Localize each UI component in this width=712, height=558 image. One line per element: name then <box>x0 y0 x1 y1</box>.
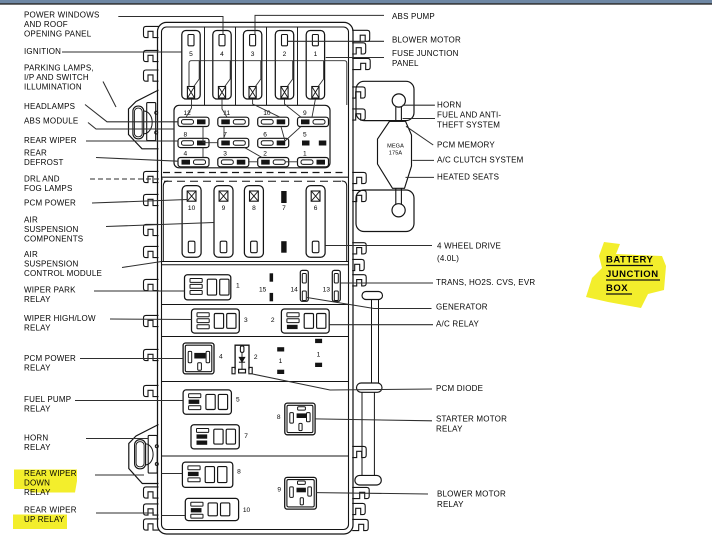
mini fuse 1 <box>298 151 329 167</box>
label BLOWER MOTOR <box>392 36 461 45</box>
section divider line <box>162 261 349 263</box>
right housing upper lobe <box>356 81 414 120</box>
maxi fuse 10 <box>182 186 201 258</box>
svg-text:HEADLAMPS: HEADLAMPS <box>24 102 75 111</box>
label AIR <box>24 216 38 225</box>
label OPENING PANEL <box>24 30 92 39</box>
svg-text:POWER WINDOWS: POWER WINDOWS <box>24 11 99 20</box>
svg-text:AIR: AIR <box>24 250 38 259</box>
label BATTERY <box>606 255 653 266</box>
svg-text:DEFROST: DEFROST <box>24 158 64 167</box>
svg-text:PCM MEMORY: PCM MEMORY <box>437 141 495 150</box>
svg-text:8: 8 <box>277 414 281 421</box>
label 4 WHEEL DRIVE <box>437 242 501 251</box>
label RELAY <box>24 324 51 333</box>
svg-text:REAR WIPER: REAR WIPER <box>24 136 77 145</box>
svg-text:THEFT SYSTEM: THEFT SYSTEM <box>437 121 500 130</box>
housing tab right <box>352 259 364 270</box>
svg-text:RELAY: RELAY <box>436 425 463 434</box>
mega fuse 175A <box>378 94 412 217</box>
housing tab right <box>352 503 365 514</box>
section divider line <box>162 304 349 306</box>
label RELAY <box>24 405 51 414</box>
mini fuse 7 <box>218 131 249 147</box>
wire lead starter motor relay <box>315 419 432 421</box>
wire lead trans ho2s <box>340 282 433 284</box>
junction box inner shell <box>162 27 349 530</box>
mini fuse 3 <box>218 151 249 167</box>
housing tab right <box>352 446 366 457</box>
label HEATED SEATS <box>437 173 499 182</box>
label ILLUMINATION <box>24 83 82 92</box>
svg-text:5: 5 <box>303 131 307 138</box>
mini fuse 4 <box>178 151 209 167</box>
svg-text:175A: 175A <box>389 151 403 157</box>
label REAR <box>24 149 47 158</box>
wire power windows drop <box>118 17 223 35</box>
svg-text:SUSPENSION: SUSPENSION <box>24 225 78 234</box>
wire lead horn relay <box>86 438 148 440</box>
svg-text:FUEL AND ANTI-: FUEL AND ANTI- <box>437 111 501 120</box>
relay R3 wiper high/low <box>192 309 249 333</box>
relay R4 pcm power <box>183 343 223 374</box>
svg-text:3: 3 <box>251 51 255 58</box>
wire mini fuse links <box>186 99 192 117</box>
svg-text:3: 3 <box>244 317 248 324</box>
svg-text:FOG LAMPS: FOG LAMPS <box>24 184 72 193</box>
svg-text:RELAY: RELAY <box>24 443 51 452</box>
label RELAY <box>24 364 51 373</box>
housing tab left <box>144 246 159 257</box>
svg-text:COMPONENTS: COMPONENTS <box>24 235 83 244</box>
svg-text:1: 1 <box>303 151 307 158</box>
housing tab right <box>352 487 369 498</box>
svg-text:WIPER HIGH/LOW: WIPER HIGH/LOW <box>24 314 96 323</box>
svg-text:(4.0L): (4.0L) <box>437 254 459 263</box>
svg-text:1: 1 <box>279 358 283 365</box>
svg-text:RELAY: RELAY <box>24 364 51 373</box>
svg-text:REAR WIPER: REAR WIPER <box>24 469 77 478</box>
wire lead rear defrost <box>96 158 178 162</box>
maxi fuse 6 <box>306 186 325 258</box>
wire lead 4 wheel drive <box>325 245 432 247</box>
housing tab right <box>352 275 366 286</box>
maxi fuse slot 1 <box>306 31 324 100</box>
wire lead drl fog lamps <box>90 178 163 180</box>
label HORN <box>437 101 461 110</box>
svg-text:RELAY: RELAY <box>24 295 51 304</box>
label IGNITION <box>24 47 61 56</box>
label PCM DIODE <box>436 384 483 393</box>
wire lead headlamps <box>85 105 178 122</box>
label SUSPENSION <box>24 225 78 234</box>
housing tab left <box>144 315 159 326</box>
maxi fuse 9 <box>214 186 233 258</box>
svg-text:6: 6 <box>314 205 318 212</box>
label CONTROL MODULE <box>24 269 102 278</box>
label RELAY <box>24 488 51 497</box>
mini fuse carrier <box>174 105 330 168</box>
label JUNCTION <box>606 269 660 280</box>
junction box outer shell <box>158 22 354 534</box>
wire lead ac relay <box>329 324 433 326</box>
label ABS PUMP <box>392 12 435 21</box>
svg-text:WIPER PARK: WIPER PARK <box>24 286 76 295</box>
wire lead parking lamps diagonal <box>103 82 116 108</box>
housing tab left <box>144 279 159 290</box>
wire lead rear wiper down a <box>95 474 144 476</box>
svg-text:9: 9 <box>303 110 307 117</box>
wire lead fuel pump relay <box>75 400 183 402</box>
svg-text:HEATED SEATS: HEATED SEATS <box>437 173 499 182</box>
housing tab right <box>352 190 366 201</box>
svg-text:8: 8 <box>237 469 241 476</box>
svg-text:10: 10 <box>188 205 196 212</box>
wire lead blower motor relay <box>316 493 428 494</box>
housing tab right <box>352 519 368 530</box>
svg-text:7: 7 <box>244 433 248 440</box>
svg-text:UP RELAY: UP RELAY <box>24 515 65 524</box>
svg-text:STARTER MOTOR: STARTER MOTOR <box>436 415 507 424</box>
section divider line <box>162 176 349 178</box>
fuse 13 <box>323 270 341 301</box>
label REAR WIPER <box>24 469 77 478</box>
svg-text:GENERATOR: GENERATOR <box>436 303 488 312</box>
svg-text:1: 1 <box>314 51 318 58</box>
svg-text:4: 4 <box>220 51 224 58</box>
svg-text:PCM POWER: PCM POWER <box>24 354 76 363</box>
mid section tray <box>163 181 346 262</box>
label RELAY <box>24 443 51 452</box>
svg-text:AND ROOF: AND ROOF <box>24 20 68 29</box>
label SUSPENSION <box>24 260 78 269</box>
label RELAY <box>437 500 464 509</box>
label WIPER PARK <box>24 286 76 295</box>
label COMPONENTS <box>24 235 83 244</box>
fuse 14 <box>290 270 308 301</box>
wire lead wiper highlow relay <box>110 318 192 321</box>
highlight rear wiper down <box>14 470 77 493</box>
highlight battery junction box <box>586 242 666 308</box>
svg-text:8: 8 <box>184 131 188 138</box>
svg-text:ILLUMINATION: ILLUMINATION <box>24 83 82 92</box>
svg-text:3: 3 <box>223 151 227 158</box>
label WIPER HIGH/LOW <box>24 314 96 323</box>
label UP RELAY <box>24 515 65 524</box>
label TRANS, HO2S. CVS, EVR <box>436 278 535 287</box>
maxi fuse 8 <box>244 186 263 258</box>
housing tab left <box>144 487 159 498</box>
label BLOWER MOTOR <box>437 490 506 499</box>
wire lead pcm power relay <box>80 358 183 360</box>
svg-text:PANEL: PANEL <box>392 59 419 68</box>
wire lead rear wiper up a <box>96 512 154 514</box>
svg-text:RELAY: RELAY <box>437 500 464 509</box>
svg-text:RELAY: RELAY <box>24 405 51 414</box>
label I/P AND SWITCH <box>24 73 89 82</box>
label PCM POWER <box>24 199 76 208</box>
terminal pair 1a <box>277 347 284 374</box>
svg-text:HORN: HORN <box>24 434 48 443</box>
svg-text:4: 4 <box>219 354 223 361</box>
label FOG LAMPS <box>24 184 72 193</box>
wire lead pcm memory diagonal <box>406 126 433 145</box>
wire lead horn <box>403 104 435 106</box>
mini fuse 11 <box>218 110 249 127</box>
label A/C CLUTCH SYSTEM <box>437 156 524 165</box>
svg-text:HORN: HORN <box>437 101 461 110</box>
wire abs pump drop <box>255 15 384 34</box>
svg-text:4 WHEEL DRIVE: 4 WHEEL DRIVE <box>437 242 501 251</box>
housing tab left <box>144 224 159 235</box>
wire lead pcm diode <box>253 374 433 390</box>
connector C1 body <box>129 90 159 149</box>
fuse 15 terminals <box>259 273 273 301</box>
svg-text:OPENING PANEL: OPENING PANEL <box>24 30 92 39</box>
svg-text:AIR: AIR <box>24 216 38 225</box>
wire lead fuel anti-theft <box>403 118 435 120</box>
label REAR WIPER <box>24 506 77 515</box>
label RELAY <box>24 295 51 304</box>
label PANEL <box>392 59 419 68</box>
housing tab left <box>144 504 159 515</box>
wire lead air susp components <box>106 223 214 227</box>
maxi fuse slot 3 <box>243 31 261 100</box>
relay R8 rear wiper down <box>182 462 241 487</box>
svg-text:FUSE JUNCTION: FUSE JUNCTION <box>392 49 459 58</box>
mini fuse 8 <box>178 131 209 147</box>
relay R2 a/c <box>271 309 329 333</box>
svg-text:FUEL PUMP: FUEL PUMP <box>24 395 71 404</box>
relay R9 blower motor <box>277 477 316 509</box>
svg-text:PCM POWER: PCM POWER <box>24 199 76 208</box>
svg-text:9: 9 <box>222 205 226 212</box>
svg-text:ABS MODULE: ABS MODULE <box>24 117 78 126</box>
svg-text:CONTROL MODULE: CONTROL MODULE <box>24 269 102 278</box>
label BOX <box>606 283 632 294</box>
svg-text:DOWN: DOWN <box>24 479 50 488</box>
maxi fuse slot 2 <box>275 31 293 100</box>
label HEADLAMPS <box>24 102 75 111</box>
svg-text:15: 15 <box>259 286 267 293</box>
top toolbar strip <box>0 0 712 5</box>
mini fuse 9 <box>298 110 329 127</box>
wire lead generator <box>307 298 432 309</box>
housing tab right <box>352 87 365 98</box>
empty maxi position 7 terminals <box>281 191 286 253</box>
svg-text:RELAY: RELAY <box>24 488 51 497</box>
mini fuse 12 <box>178 110 209 127</box>
label AND ROOF <box>24 20 68 29</box>
svg-text:7: 7 <box>282 205 286 212</box>
svg-text:9: 9 <box>277 487 281 494</box>
svg-text:1: 1 <box>317 351 321 358</box>
svg-text:REAR WIPER: REAR WIPER <box>24 506 77 515</box>
section divider line <box>162 336 349 338</box>
wire lead rear wiper <box>86 140 178 142</box>
relay R5 fuel pump <box>183 390 240 414</box>
relay R1 wiper park <box>185 275 241 300</box>
svg-text:13: 13 <box>323 286 331 293</box>
mini fuse 2 <box>258 151 289 167</box>
relay R10 rear wiper up <box>185 498 250 520</box>
wire blower motor lead <box>287 40 384 42</box>
label PCM MEMORY <box>437 141 495 150</box>
svg-text:SUSPENSION: SUSPENSION <box>24 260 78 269</box>
wire lead wiper park relay <box>94 290 185 292</box>
label DOWN <box>24 479 50 488</box>
svg-text:ABS PUMP: ABS PUMP <box>392 12 435 21</box>
svg-text:2: 2 <box>263 151 267 158</box>
svg-text:5: 5 <box>189 51 193 58</box>
bus bar strip right <box>355 292 383 486</box>
connector C2 body <box>129 425 159 484</box>
wire lead heated seats <box>406 176 435 178</box>
svg-text:2: 2 <box>283 51 287 58</box>
housing tab left <box>144 50 159 61</box>
wire lead air susp control <box>122 262 162 268</box>
svg-text:DRL AND: DRL AND <box>24 175 60 184</box>
housing tab left <box>144 349 159 360</box>
svg-text:PCM DIODE: PCM DIODE <box>436 384 483 393</box>
wire lead ac clutch <box>412 159 434 161</box>
maxi fuse slot 4 <box>213 31 231 100</box>
svg-text:4: 4 <box>184 151 188 158</box>
housing tab left <box>144 26 159 37</box>
svg-text:I/P AND SWITCH: I/P AND SWITCH <box>24 73 89 82</box>
label HORN <box>24 434 48 443</box>
section divider line <box>162 455 349 457</box>
wire lead ignition <box>62 51 182 53</box>
label AIR <box>24 250 38 259</box>
relay R7 horn <box>191 425 248 449</box>
svg-text:PARKING LAMPS,: PARKING LAMPS, <box>24 64 94 73</box>
relay R6 starter motor <box>277 403 315 435</box>
svg-text:A/C RELAY: A/C RELAY <box>436 320 479 329</box>
label DEFROST <box>24 158 64 167</box>
housing tab left <box>144 385 159 396</box>
section divider line <box>162 264 349 266</box>
svg-text:5: 5 <box>236 397 240 404</box>
label RELAY <box>436 425 463 434</box>
svg-text:8: 8 <box>252 205 256 212</box>
svg-text:BOX: BOX <box>606 283 628 294</box>
wire bus across maxi fuses <box>189 61 347 105</box>
label A/C RELAY <box>436 320 479 329</box>
housing tab left <box>144 519 159 530</box>
label PARKING LAMPS, <box>24 64 94 73</box>
wire lead pcm power fuse <box>92 200 187 204</box>
svg-text:TRANS, HO2S. CVS, EVR: TRANS, HO2S. CVS, EVR <box>436 278 535 287</box>
svg-text:A/C CLUTCH SYSTEM: A/C CLUTCH SYSTEM <box>437 156 524 165</box>
maxi fuse slot 5 <box>182 31 200 100</box>
label POWER WINDOWS <box>24 11 99 20</box>
tray divider wires top section <box>204 28 206 106</box>
label GENERATOR <box>436 303 488 312</box>
housing tab right <box>352 30 370 41</box>
label FUEL AND ANTI- <box>437 111 501 120</box>
svg-text:14: 14 <box>290 286 298 293</box>
housing tab right <box>352 58 370 69</box>
dashed carrier seam <box>163 172 347 174</box>
svg-text:1: 1 <box>236 283 240 290</box>
housing tab left <box>144 194 159 205</box>
wire maxi fuse feeds <box>194 61 199 87</box>
label THEFT SYSTEM <box>437 121 500 130</box>
label PCM POWER <box>24 354 76 363</box>
svg-text:2: 2 <box>271 317 275 324</box>
wire lead rear wiper up b <box>162 515 186 517</box>
housing tab left <box>144 70 159 81</box>
svg-text:JUNCTION: JUNCTION <box>606 269 659 280</box>
svg-text:RELAY: RELAY <box>24 324 51 333</box>
housing tab right <box>352 109 365 120</box>
svg-text:BATTERY: BATTERY <box>606 255 653 266</box>
label (4.0L) <box>437 254 459 263</box>
mini fuse 10 <box>258 110 289 127</box>
wire fuse junction panel lead <box>326 57 384 59</box>
terminal pair 1b <box>315 339 322 367</box>
wire lead rear wiper down b <box>162 473 183 475</box>
wire lead abs module <box>88 123 174 130</box>
housing tab right <box>352 243 366 254</box>
label DRL AND <box>24 175 60 184</box>
svg-text:2: 2 <box>254 354 258 361</box>
label FUSE JUNCTION <box>392 49 459 58</box>
section divider line <box>162 381 349 383</box>
housing tab right <box>352 172 366 183</box>
svg-text:10: 10 <box>243 507 251 514</box>
label STARTER MOTOR <box>436 415 507 424</box>
mini fuse 6 <box>258 131 289 147</box>
label ABS MODULE <box>24 117 78 126</box>
right housing lower lobe <box>356 190 414 232</box>
housing tab right <box>352 43 366 54</box>
svg-text:REAR: REAR <box>24 149 47 158</box>
svg-text:BLOWER MOTOR: BLOWER MOTOR <box>437 490 506 499</box>
svg-text:IGNITION: IGNITION <box>24 47 61 56</box>
highlight rear wiper up relay <box>13 515 67 530</box>
svg-text:BLOWER MOTOR: BLOWER MOTOR <box>392 36 461 45</box>
label REAR WIPER <box>24 136 77 145</box>
dashed section seam <box>164 180 346 182</box>
svg-text:MEGA: MEGA <box>387 143 404 149</box>
housing tab left <box>144 171 159 182</box>
empty mini fuse position 5 terminals <box>302 131 326 145</box>
label FUEL PUMP <box>24 395 71 404</box>
diode assembly 2 <box>232 345 258 374</box>
svg-text:6: 6 <box>263 131 267 138</box>
